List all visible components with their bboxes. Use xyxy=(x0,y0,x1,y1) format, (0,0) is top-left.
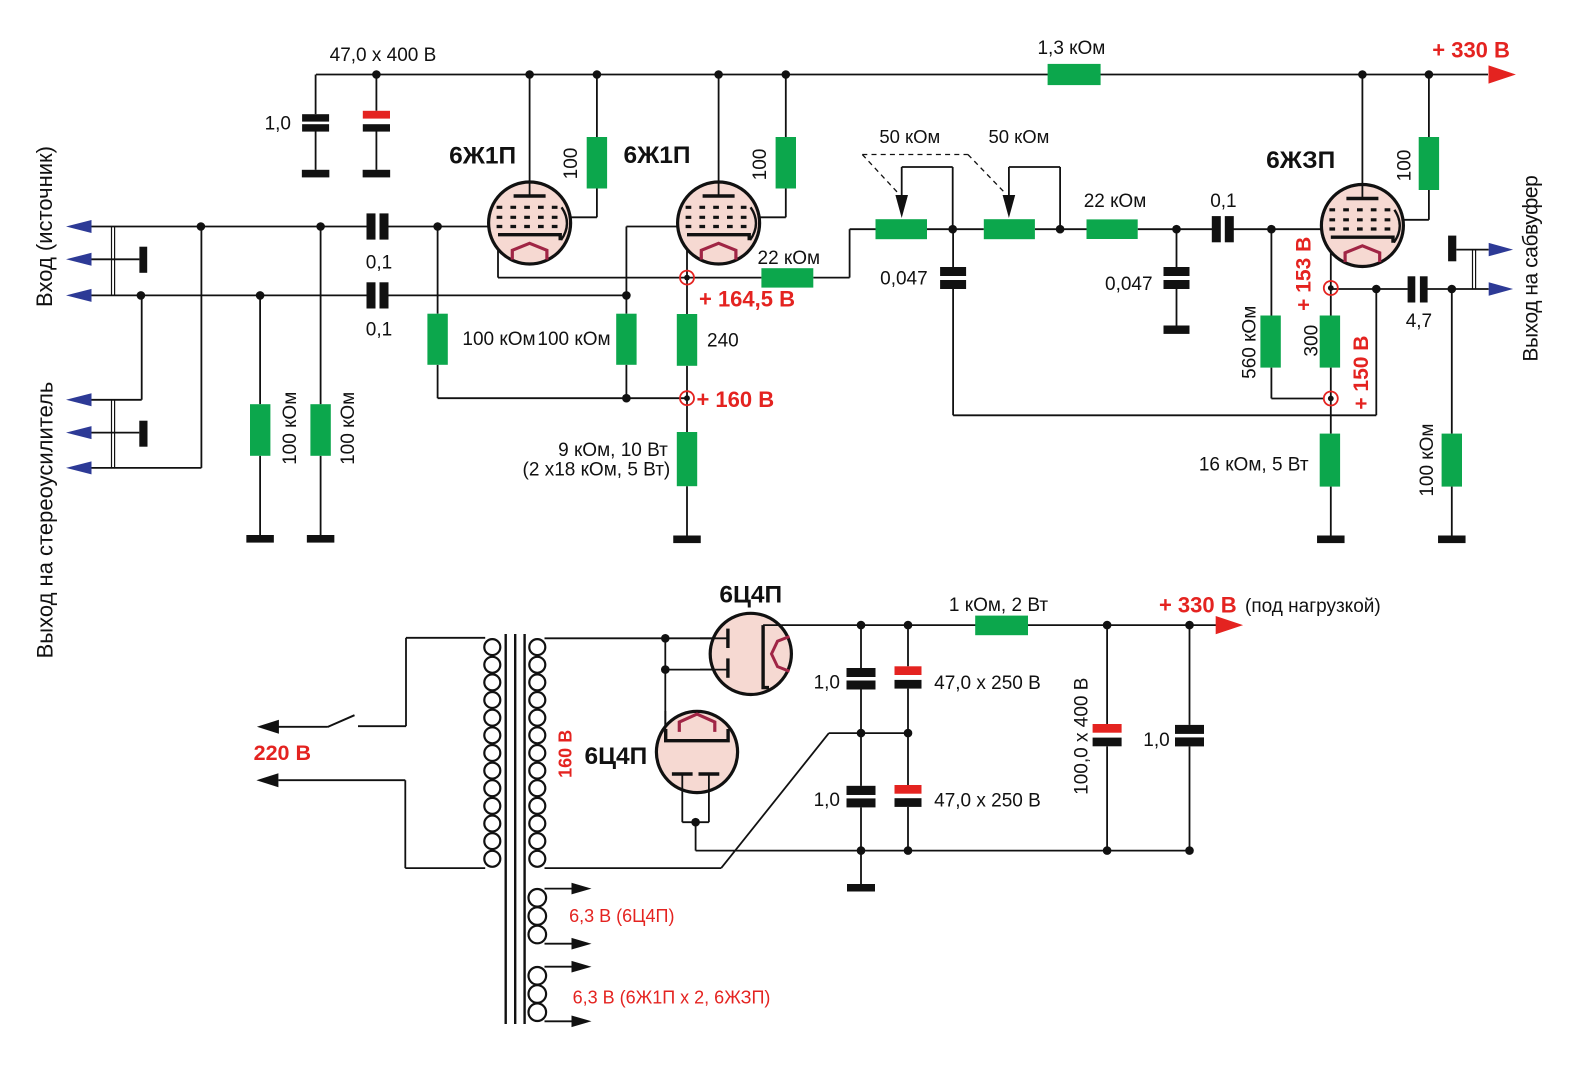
svg-text:100: 100 xyxy=(1394,150,1415,182)
svg-text:220 В: 220 В xyxy=(254,741,311,765)
svg-text:(под нагрузкой): (под нагрузкой) xyxy=(1245,596,1381,617)
svg-text:6Ж1П: 6Ж1П xyxy=(623,142,690,169)
svg-text:47,0 х 250 В: 47,0 х 250 В xyxy=(934,673,1041,694)
svg-text:100 кОм: 100 кОм xyxy=(338,392,359,465)
svg-text:6Ц4П: 6Ц4П xyxy=(585,743,648,770)
svg-text:47,0 x 400 В: 47,0 x 400 В xyxy=(330,45,437,66)
svg-text:6ЖЗП: 6ЖЗП xyxy=(1266,147,1335,174)
svg-text:1,0: 1,0 xyxy=(814,790,840,811)
svg-text:6Ж1П: 6Ж1П xyxy=(449,143,516,170)
svg-text:+ 330 В: + 330 В xyxy=(1432,38,1510,63)
svg-text:9 кОм, 10 Вт: 9 кОм, 10 Вт xyxy=(558,440,668,461)
svg-text:+ 150 В: + 150 В xyxy=(1350,336,1373,410)
svg-text:160 В: 160 В xyxy=(556,730,576,778)
svg-text:0,047: 0,047 xyxy=(1105,274,1153,295)
svg-text:0,1: 0,1 xyxy=(366,253,392,274)
svg-text:100: 100 xyxy=(561,148,582,180)
svg-text:100 кОм: 100 кОм xyxy=(1417,424,1438,497)
svg-text:0,047: 0,047 xyxy=(880,269,928,290)
svg-text:1,3 кОм: 1,3 кОм xyxy=(1037,38,1105,59)
svg-text:50 кОм: 50 кОм xyxy=(988,126,1049,147)
svg-text:6,3 В (6Ж1П х 2, 6ЖЗП): 6,3 В (6Ж1П х 2, 6ЖЗП) xyxy=(573,988,771,1008)
svg-text:47,0 х 250 В: 47,0 х 250 В xyxy=(934,791,1041,812)
svg-text:1,0: 1,0 xyxy=(1143,730,1169,751)
svg-text:Выход на стереоусилитель: Выход на стереоусилитель xyxy=(32,382,57,659)
svg-text:6,3 В (6Ц4П): 6,3 В (6Ц4П) xyxy=(569,906,674,926)
svg-text:16 кОм, 5 Вт: 16 кОм, 5 Вт xyxy=(1199,455,1309,476)
svg-text:100,0 х 400 В: 100,0 х 400 В xyxy=(1072,678,1093,795)
svg-text:6Ц4П: 6Ц4П xyxy=(719,582,782,609)
svg-text:1,0: 1,0 xyxy=(814,673,840,694)
svg-text:+ 153 В: + 153 В xyxy=(1293,237,1316,311)
svg-text:240: 240 xyxy=(707,331,739,352)
svg-text:100 кОм: 100 кОм xyxy=(537,329,610,350)
svg-text:4,7: 4,7 xyxy=(1406,311,1432,332)
svg-text:+ 330 В: + 330 В xyxy=(1159,593,1237,618)
svg-text:50 кОм: 50 кОм xyxy=(879,126,940,147)
svg-text:(2 х18 кОм, 5 Вт): (2 х18 кОм, 5 Вт) xyxy=(523,460,671,481)
svg-text:0,1: 0,1 xyxy=(366,320,392,341)
svg-text:22 кОм: 22 кОм xyxy=(758,248,821,269)
svg-text:560 кОм: 560 кОм xyxy=(1239,306,1260,379)
svg-text:Выход на сабвуфер: Выход на сабвуфер xyxy=(1520,176,1543,362)
svg-text:0,1: 0,1 xyxy=(1210,191,1236,212)
svg-text:100 кОм: 100 кОм xyxy=(462,329,535,350)
svg-text:22 кОм: 22 кОм xyxy=(1084,191,1147,212)
svg-text:1 кОм, 2 Вт: 1 кОм, 2 Вт xyxy=(949,595,1048,616)
svg-text:+ 164,5 В: + 164,5 В xyxy=(699,287,795,312)
svg-text:1,0: 1,0 xyxy=(265,114,291,135)
svg-text:100: 100 xyxy=(750,149,771,181)
svg-text:100 кОм: 100 кОм xyxy=(280,392,301,465)
svg-text:Вход (источник): Вход (источник) xyxy=(32,146,57,307)
svg-text:+ 160 В: + 160 В xyxy=(696,387,774,412)
svg-text:300: 300 xyxy=(1302,325,1323,357)
